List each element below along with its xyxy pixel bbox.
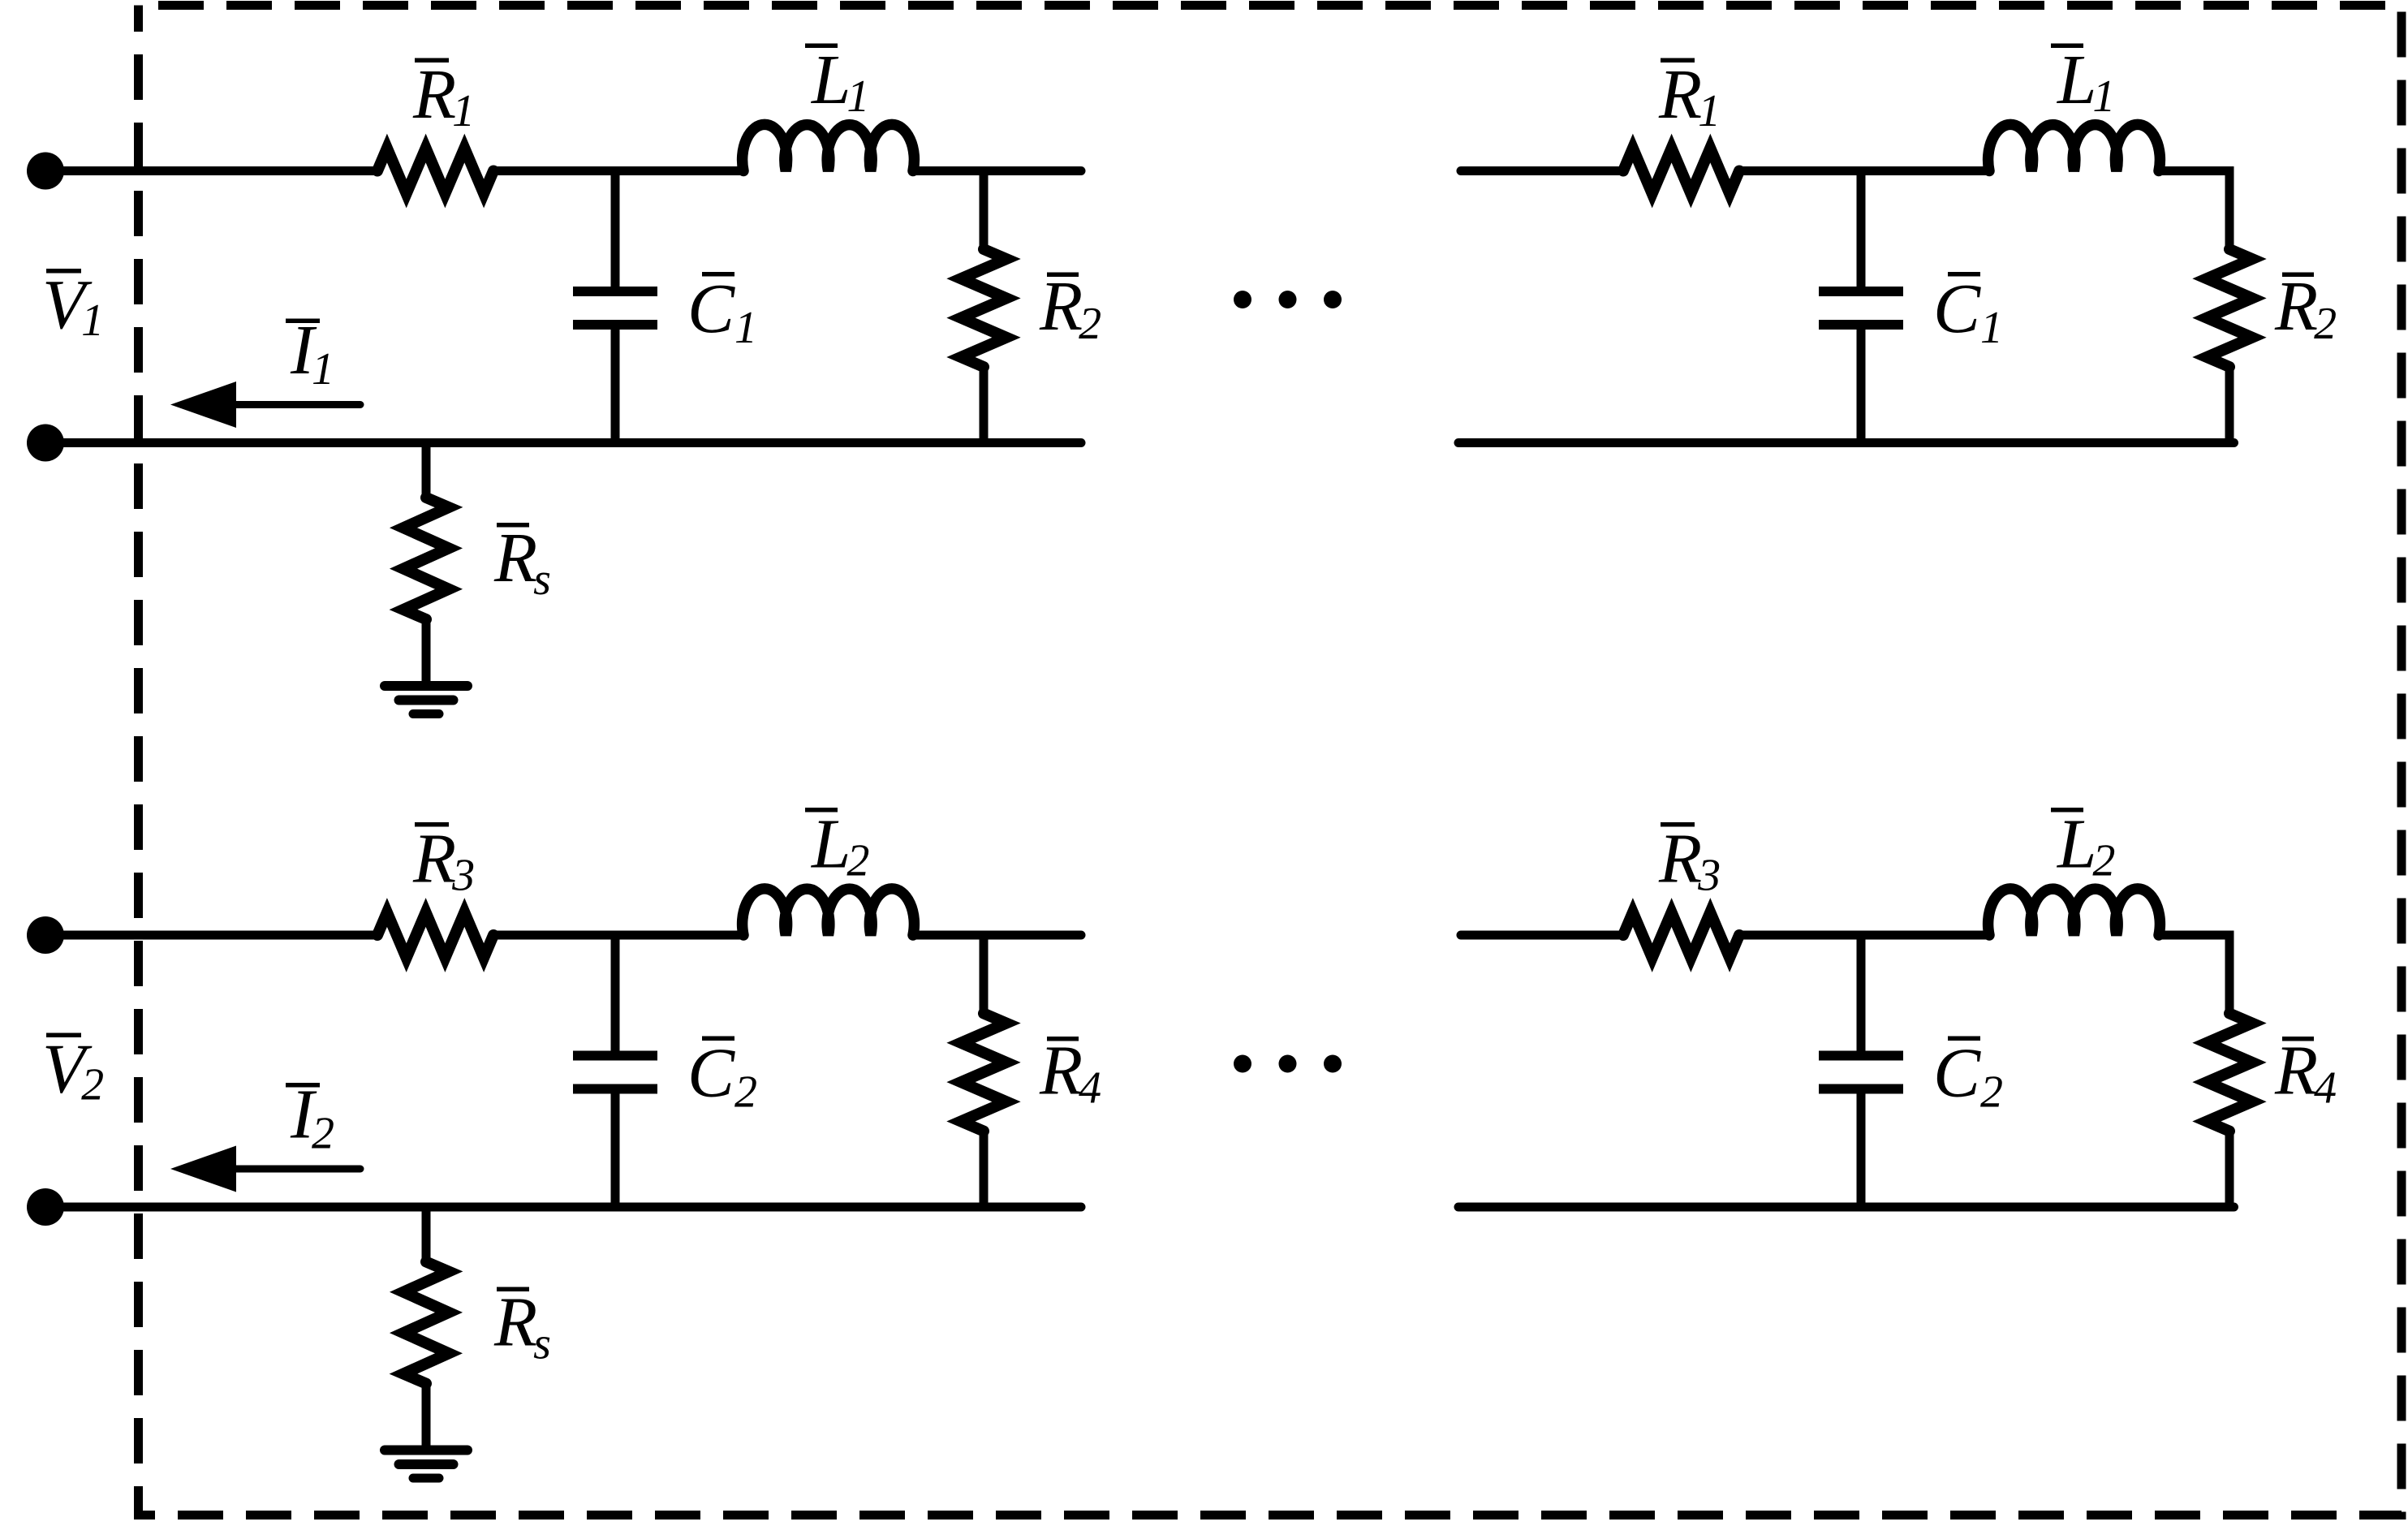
wire: R3 to C junction to L — [493, 931, 744, 940]
terminal node (bottom, V2-) — [27, 1188, 64, 1226]
resistor R3 (right cell) — [1623, 912, 1739, 958]
capacitor C2 — [611, 935, 620, 1054]
wire: top rail from terminal to R — [45, 166, 378, 175]
current arrow I1 — [170, 381, 236, 428]
resistor Rs (to ground) — [422, 443, 431, 499]
wire: top rail from terminal to R — [45, 931, 378, 940]
wire: R1 to C junction to L — [493, 166, 744, 175]
wire: L2 to top-right stub — [912, 931, 1081, 940]
wire: bottom rail (right cell) — [1458, 438, 2234, 447]
resistor R4 (right cell, shunt) — [2225, 935, 2234, 1014]
inductor L1 (right cell) — [1988, 124, 2160, 170]
ellipsis dots — [1234, 291, 1251, 308]
terminal node (top, V2+) — [27, 916, 64, 954]
inductor L1 — [743, 124, 915, 170]
capacitor C1 — [611, 171, 620, 290]
inductor L2 — [743, 889, 915, 935]
wire: top rail — [1461, 931, 1624, 940]
resistor R3 — [377, 912, 493, 958]
wire: bottom rail (right cell) — [1458, 1203, 2234, 1212]
wire: bottom rail — [45, 1203, 1081, 1212]
wire: bottom rail — [45, 438, 1081, 447]
capacitor C1 (right cell) — [1857, 171, 1866, 290]
ellipsis dots — [1234, 1055, 1251, 1073]
wire: R to C junction to L (right cell) — [1738, 931, 1990, 940]
wire: L1 to top-right stub — [912, 166, 1081, 175]
resistor R2 (shunt) — [980, 171, 989, 250]
resistor R1 (right cell) — [1623, 149, 1739, 194]
terminal node (top, V1+) — [27, 153, 64, 190]
ground — [422, 619, 431, 683]
wire: L to corner (right cell) — [2158, 931, 2234, 940]
inductor L2 (right cell) — [1988, 889, 2160, 935]
current arrow I2 — [170, 1146, 236, 1192]
wire: L to corner (right cell) — [2158, 166, 2234, 175]
terminal node (bottom, V1-) — [27, 425, 64, 462]
resistor R4 (shunt) — [980, 935, 989, 1014]
capacitor C2 (right cell) — [1857, 935, 1866, 1054]
wire: top rail — [1461, 166, 1624, 175]
resistor Rs (to ground) — [422, 1207, 431, 1263]
resistor R2 (right cell, shunt) — [2225, 171, 2234, 250]
wire: R to C junction to L (right cell) — [1738, 166, 1990, 175]
resistor R1 — [377, 149, 493, 194]
ground — [422, 1383, 431, 1448]
